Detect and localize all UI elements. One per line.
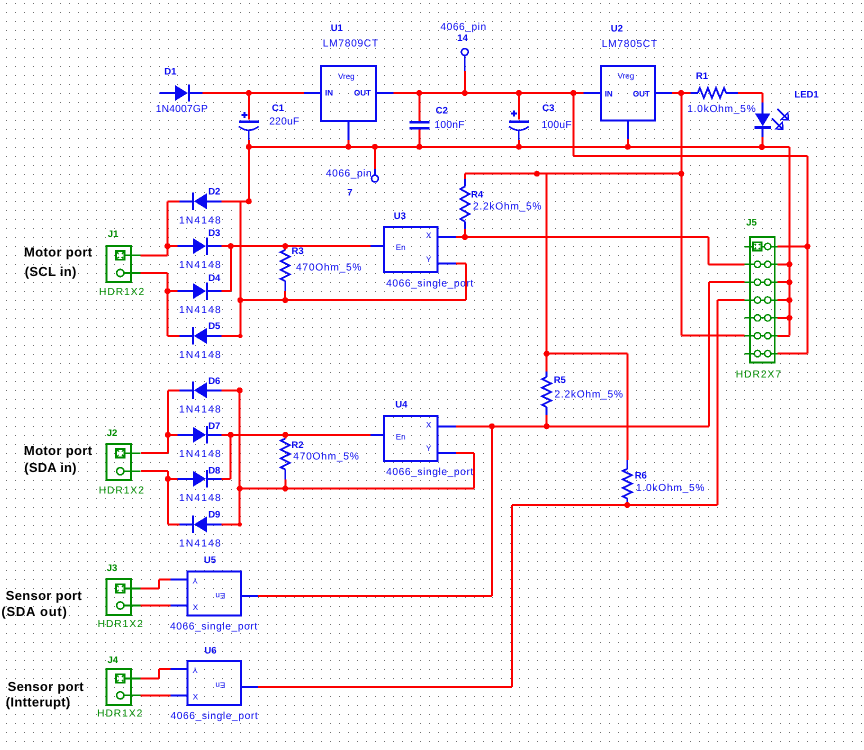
svg-text:220uF: 220uF [269,116,299,127]
svg-text:U5: U5 [204,555,217,566]
svg-text:D1: D1 [164,66,177,77]
svg-text:1N4148: 1N4148 [179,350,222,361]
svg-text:1N4148: 1N4148 [179,260,222,271]
svg-text:1N4148: 1N4148 [179,493,222,504]
svg-text:1N4148: 1N4148 [179,404,222,415]
svg-text:2.2kOhm_5%: 2.2kOhm_5% [473,202,542,213]
svg-text:100uF: 100uF [542,120,572,131]
svg-text:OUT: OUT [354,89,371,98]
svg-text:J5: J5 [746,218,757,229]
svg-text:(SCL in): (SCL in) [25,264,77,279]
svg-text:100nF: 100nF [434,120,464,131]
svg-text:Vreg: Vreg [338,72,355,81]
svg-text:LM7809CT: LM7809CT [323,38,379,49]
svg-text:U1: U1 [331,23,344,34]
svg-text:U4: U4 [395,399,408,410]
svg-text:IN: IN [605,90,613,99]
svg-text:R5: R5 [554,375,567,386]
svg-text:1.0kOhm_5%: 1.0kOhm_5% [636,483,705,494]
svg-text:D2: D2 [208,187,220,198]
svg-text:4066_single_port: 4066_single_port [386,467,474,478]
svg-text:OUT: OUT [633,90,650,99]
svg-text:4066_single_port: 4066_single_port [170,622,258,633]
svg-text:HDR1X2: HDR1X2 [98,619,144,630]
svg-text:(Intterupt): (Intterupt) [6,695,71,710]
svg-text:D5: D5 [208,321,221,332]
svg-text:D4: D4 [208,273,221,284]
svg-text:LM7805CT: LM7805CT [602,39,658,50]
svg-text:En: En [215,591,225,600]
svg-text:LED1: LED1 [794,89,819,100]
svg-text:U2: U2 [611,24,623,35]
svg-text:D8: D8 [208,465,220,476]
svg-text:J2: J2 [107,428,118,439]
svg-text:470Ohm_5%: 470Ohm_5% [296,262,362,273]
svg-text:En: En [396,432,406,441]
svg-text:J4: J4 [108,655,119,666]
svg-text:1N4148: 1N4148 [179,215,222,226]
svg-text:R2: R2 [291,440,303,451]
svg-text:HDR1X2: HDR1X2 [99,486,145,497]
svg-text:X: X [426,231,432,240]
svg-text:14: 14 [457,33,468,44]
svg-text:C1: C1 [272,103,285,114]
svg-text:Y: Y [192,576,198,585]
svg-text:D7: D7 [208,421,220,432]
svg-text:1.0kOhm_5%: 1.0kOhm_5% [687,104,756,115]
svg-text:R3: R3 [292,246,304,257]
svg-text:HDR1X2: HDR1X2 [99,287,145,298]
svg-text:C2: C2 [436,106,448,117]
svg-text:Y: Y [426,444,432,453]
svg-text:470Ohm_5%: 470Ohm_5% [293,452,359,463]
svg-text:4066_single_port: 4066_single_port [386,279,474,290]
svg-text:D6: D6 [208,376,220,387]
svg-text:Vreg: Vreg [618,71,635,80]
svg-text:X: X [193,693,199,702]
svg-text:En: En [396,243,406,252]
svg-text:D9: D9 [208,510,220,521]
svg-text:Motor port: Motor port [24,245,93,260]
svg-text:X: X [193,603,199,612]
svg-text:C3: C3 [542,103,554,114]
svg-text:HDR1X2: HDR1X2 [97,709,143,720]
svg-text:1N4148: 1N4148 [179,449,222,460]
svg-text:HDR2X7: HDR2X7 [736,370,782,381]
svg-text:D3: D3 [208,228,220,239]
svg-text:7: 7 [347,188,352,199]
svg-text:4066_pin: 4066_pin [440,22,486,33]
svg-text:1N4148: 1N4148 [179,305,222,316]
svg-text:R6: R6 [635,470,647,481]
svg-text:Sensor port: Sensor port [6,588,83,603]
svg-text:U6: U6 [204,646,216,657]
svg-text:R4: R4 [471,190,484,201]
svg-text:Y: Y [192,665,198,674]
svg-text:1N4148: 1N4148 [179,538,222,549]
svg-text:2.2kOhm_5%: 2.2kOhm_5% [555,390,624,401]
svg-text:X: X [426,420,432,429]
svg-text:(SDA out): (SDA out) [1,604,67,619]
svg-text:Sensor port: Sensor port [8,679,85,694]
svg-text:J3: J3 [107,563,118,574]
svg-text:Motor port: Motor port [24,443,93,458]
svg-text:R1: R1 [696,71,709,82]
svg-text:En: En [215,680,225,689]
svg-text:Y: Y [426,255,432,264]
svg-text:4066_pin: 4066_pin [326,169,372,180]
svg-text:1N4007GP: 1N4007GP [156,104,208,115]
svg-text:4066_single_port: 4066_single_port [171,711,259,722]
svg-text:J1: J1 [108,229,119,240]
svg-text:(SDA in): (SDA in) [24,460,76,475]
svg-text:IN: IN [325,89,333,98]
svg-text:U3: U3 [394,211,406,222]
